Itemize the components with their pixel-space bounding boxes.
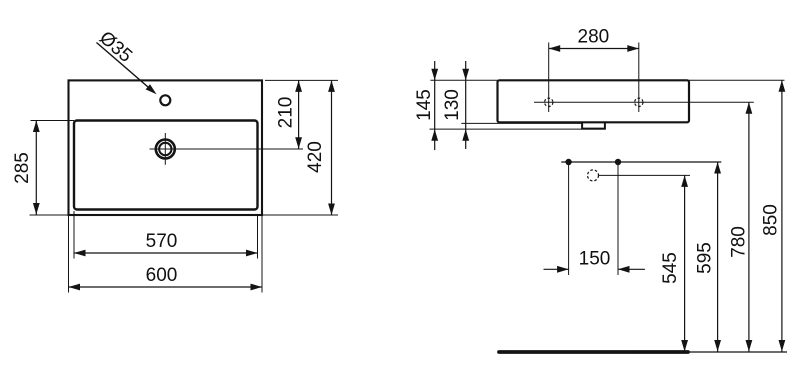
dim 130 line (465, 61, 467, 149)
dim 595 line (717, 162, 719, 352)
underside line (461, 122, 582, 124)
top-right extension line (265, 79, 338, 81)
supply vertical right (617, 162, 619, 275)
washbasin outer rim (plan view) (69, 80, 263, 215)
dim 150 left line (544, 268, 569, 270)
washbasin inner bowl (74, 121, 258, 210)
bottom extension line 145 (430, 128, 606, 130)
drain vertical centerline (164, 133, 166, 165)
dim 285 extension top (31, 120, 75, 122)
svg-text:150: 150 (579, 248, 611, 269)
dim 145 line (434, 61, 436, 150)
supply line (561, 161, 721, 163)
drain outer circle (156, 140, 175, 159)
dim 285 arrow up (33, 121, 40, 133)
svg-text:595: 595 (695, 242, 716, 274)
dim 420 arrow down (328, 204, 335, 216)
dim 850 arrow down (779, 340, 786, 352)
floor line thin (688, 351, 787, 353)
dim 570 extension left (73, 211, 75, 259)
dim 570 arrow left (74, 250, 86, 257)
svg-text:Ø35: Ø35 (95, 27, 136, 66)
svg-text:545: 545 (660, 252, 681, 284)
dim 420 line (331, 80, 333, 215)
dim 570 arrow right (246, 250, 258, 257)
top extension right (689, 79, 785, 81)
floor line bold (499, 350, 688, 354)
leader line O35 (97, 43, 152, 90)
drain extension line 545 (599, 174, 690, 176)
dim 145 arrow up (431, 129, 438, 141)
dim 420 arrow up (328, 80, 335, 92)
dim 600 arrow right (251, 284, 263, 291)
dim 130 arrow down (462, 69, 469, 81)
dim 780 line (748, 102, 750, 351)
svg-text:600: 600 (146, 265, 178, 286)
dim 600 line (69, 286, 263, 288)
bottom extension line (30, 214, 339, 216)
dim 595 arrow up (714, 162, 721, 174)
drain horizontal centerline (150, 148, 304, 150)
hole centerline (534, 101, 754, 103)
dim 780 arrow up (746, 102, 753, 114)
dim 280 arrow right (627, 45, 639, 52)
dim 145 arrow down (431, 69, 438, 81)
dim 150 right line (618, 268, 645, 270)
dim 545 arrow up (681, 175, 688, 187)
fixing hole left (545, 98, 553, 106)
svg-text:570: 570 (146, 231, 178, 252)
svg-text:420: 420 (305, 141, 326, 173)
dim 545 line (684, 175, 686, 351)
dim 280 arrow left (549, 45, 561, 52)
dim 600 extension left (68, 215, 70, 293)
dim 210 line (298, 80, 300, 148)
dim 570 line (74, 252, 258, 254)
dim 600 extension right (261, 215, 263, 293)
svg-text:130: 130 (442, 89, 463, 121)
dim 545 arrow down (681, 340, 688, 352)
drain outlet dashed circle (588, 170, 599, 181)
svg-text:285: 285 (12, 152, 33, 184)
fixing hole right (635, 98, 643, 106)
hole right vertical (638, 43, 640, 113)
dim 850 line (781, 80, 783, 351)
drain tab below body (582, 122, 605, 129)
tap hole O35 (160, 95, 170, 105)
svg-text:210: 210 (276, 97, 297, 129)
dim 280 line (549, 48, 639, 50)
dim 595 arrow down (714, 340, 721, 352)
svg-text:780: 780 (729, 226, 750, 258)
dim 210 arrow down (295, 137, 302, 149)
dim 850 arrow up (779, 80, 786, 92)
dim 150 arrow pointing right (557, 266, 569, 273)
dim 210 arrow up (295, 80, 302, 92)
leader arrowhead (146, 84, 157, 94)
supply point left (565, 159, 571, 165)
dim 150 arrow pointing left (618, 266, 630, 273)
dim 130 arrow up (462, 129, 469, 141)
drain inner circle (159, 143, 171, 155)
dim 600 arrow left (69, 284, 81, 291)
supply vertical left (568, 162, 570, 275)
top extension left (430, 79, 497, 81)
dim 285 arrow down (33, 203, 40, 215)
svg-text:850: 850 (761, 204, 782, 236)
supply point right (615, 159, 621, 165)
svg-text:280: 280 (578, 27, 610, 48)
hole left vertical (548, 43, 550, 113)
dim 285 line (35, 121, 37, 215)
dim 780 arrow down (746, 340, 753, 352)
svg-text:145: 145 (414, 89, 435, 121)
washbasin body (front view) (498, 80, 690, 122)
dim 570 extension right (257, 215, 259, 259)
